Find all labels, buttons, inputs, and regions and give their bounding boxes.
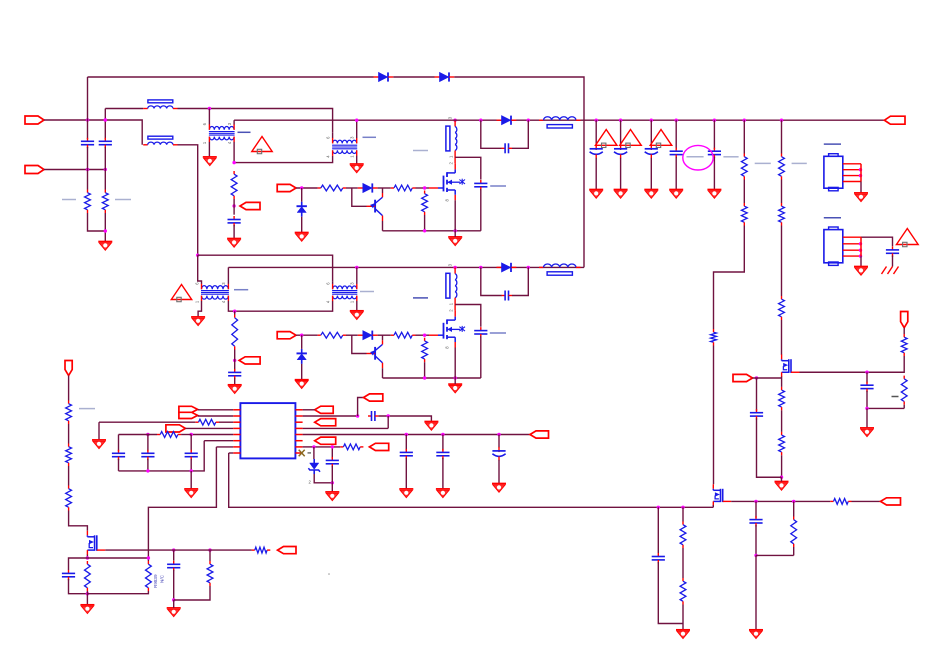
- junction: [233, 310, 236, 313]
- junction: [743, 119, 746, 122]
- wire gnd c16: [190, 471, 192, 489]
- connector pin: [843, 243, 861, 245]
- junction: [865, 407, 868, 410]
- port P2 line input: [25, 166, 44, 174]
- wire cap col b: [147, 435, 149, 452]
- wire top bus seg2: [393, 76, 434, 78]
- resistor R33: [234, 315, 236, 318]
- resistor R26 (N/C): [147, 561, 149, 564]
- ground GND C19: [436, 488, 450, 490]
- wire cap col c: [190, 435, 192, 452]
- resistor R34: [318, 334, 321, 336]
- capacitor C1 X-cap: [87, 138, 89, 142]
- capacitor C24: [657, 553, 659, 557]
- connector pin: [843, 175, 861, 177]
- junction: [104, 118, 107, 121]
- wire drive rail 1: [383, 230, 481, 232]
- junction: [104, 229, 107, 232]
- capacitor C8 (polarized): [650, 145, 652, 150]
- wire C20 down: [498, 460, 500, 484]
- junction: [86, 118, 89, 121]
- capacitor C22: [68, 570, 70, 574]
- wire drv1 a: [296, 187, 318, 189]
- wire T3 TL stub: [201, 281, 203, 284]
- wire C12 down: [757, 418, 782, 477]
- junction: [713, 119, 716, 122]
- wire nc bot: [87, 591, 148, 594]
- wire P7-Q3: [753, 377, 782, 379]
- wire T3-T4 link: [228, 301, 332, 311]
- wire R16 down: [781, 455, 783, 477]
- junction: [780, 119, 783, 122]
- wire T1 pin3 up: [233, 120, 235, 124]
- capacitor C23: [173, 561, 175, 565]
- capacitor C16: [190, 450, 192, 454]
- wire Rcol2 mid: [781, 180, 783, 204]
- ground GND T2: [350, 163, 364, 165]
- wire secondary rail 1: [234, 119, 884, 121]
- resistor R6: [391, 187, 394, 189]
- svg-text:N/C: N/C: [160, 574, 165, 583]
- resistor R7: [424, 191, 426, 194]
- wire c24 down: [658, 562, 683, 624]
- resistor R27: [209, 561, 211, 564]
- diode D7 rect2: [497, 266, 502, 268]
- ground GND J1: [854, 192, 868, 194]
- wire T3 TR up: [227, 267, 229, 284]
- wire T1 pri feed: [208, 109, 210, 125]
- resistor R5: [318, 187, 321, 189]
- port P10: [166, 425, 186, 432]
- capacitor C21: [331, 457, 333, 461]
- junction: [387, 414, 390, 417]
- wire T1 pin1 gnd: [208, 142, 210, 157]
- wire Lp2 top stub: [454, 267, 456, 273]
- port P20: [239, 357, 260, 364]
- value label (greeked): [687, 156, 704, 158]
- ground GND M2: [448, 383, 462, 385]
- wire X-cap bus A: [87, 77, 89, 120]
- wire P6 wire: [903, 328, 905, 334]
- wire c24 top: [657, 507, 659, 553]
- wire snub1 top: [455, 157, 481, 179]
- junction: [208, 548, 211, 551]
- junction: [233, 359, 236, 362]
- port P4 drive1: [277, 184, 296, 191]
- warning symbol W3: [620, 130, 641, 146]
- diode D4 rect1: [497, 119, 502, 121]
- wire row2 feed: [198, 255, 333, 281]
- junction: [497, 433, 500, 436]
- wire snub2 top: [455, 305, 481, 327]
- svg-text:R9839: R9839: [153, 574, 158, 588]
- wire gnd stub q3: [781, 477, 783, 481]
- capacitor C5: [502, 147, 506, 149]
- port P17: [65, 361, 72, 376]
- wire c25 link: [756, 554, 794, 556]
- value label (greeked): [413, 297, 428, 299]
- wire top bus seg1: [88, 76, 374, 78]
- junction: [355, 266, 358, 269]
- wire pin7 r: [303, 446, 316, 448]
- pin junction: [859, 168, 862, 171]
- port P18: [278, 547, 297, 554]
- resistor R1 discharge: [87, 190, 89, 193]
- junction: [650, 119, 653, 122]
- IC pin: [233, 440, 240, 442]
- wire snub1 bot: [480, 189, 482, 231]
- capacitor C26: [234, 369, 236, 373]
- port P11: [315, 406, 334, 413]
- wire chain d: [69, 511, 88, 531]
- wire T4 TR up: [356, 267, 358, 284]
- wire capcol c d: [190, 459, 192, 471]
- wire input L: [44, 120, 142, 145]
- wire R36 bot: [424, 362, 426, 378]
- IC U1 controller: [240, 403, 295, 458]
- capacitor C3: [233, 216, 235, 220]
- tiny dot: [328, 573, 330, 575]
- junction: [232, 161, 235, 164]
- wire C11 earth: [892, 255, 894, 266]
- wire colB top: [104, 109, 106, 140]
- value label (greeked): [490, 332, 506, 334]
- pin junction: [859, 242, 862, 245]
- ground GND pin2: [424, 421, 438, 423]
- wire Rcol1 top: [743, 120, 745, 153]
- wire pin2-pin4: [387, 416, 389, 428]
- inductor T5 primary: [446, 126, 450, 151]
- warning symbol W4: [650, 130, 671, 146]
- resistor R23: [68, 486, 70, 489]
- wire L1 in: [105, 108, 143, 110]
- wire T2 pin3 up: [356, 120, 358, 138]
- wire Rcol1 mid: [743, 180, 745, 204]
- connector pin link: [860, 164, 862, 182]
- pin junction: [859, 174, 862, 177]
- wire q5 gate line: [731, 500, 830, 502]
- wire drv2 c: [378, 334, 391, 336]
- resistor R24: [252, 549, 255, 551]
- port P3: [240, 202, 260, 209]
- junction: [479, 266, 482, 269]
- wire r29-r30: [682, 548, 684, 578]
- wire pin5 left: [119, 434, 158, 436]
- capacitor C10: [713, 148, 715, 152]
- capacitor C7 (polarized): [620, 145, 622, 150]
- ground GND C20: [492, 483, 506, 485]
- connector pin: [843, 169, 861, 171]
- wire pin6 wire: [204, 440, 233, 442]
- wire R7 bot: [424, 215, 426, 231]
- resistor R9: [743, 203, 745, 206]
- wire C18 top: [405, 435, 407, 451]
- earth ground EGND: [882, 267, 887, 275]
- MOSFET Q5: [712, 484, 714, 489]
- wire pin2 r2: [378, 416, 431, 422]
- wire R14 down: [800, 356, 905, 372]
- wire outcapf0 bot: [675, 157, 677, 190]
- port P14: [530, 431, 549, 438]
- IC pin: [233, 446, 240, 448]
- wire T2 bottom link: [234, 156, 333, 163]
- IC pin: [233, 421, 240, 423]
- junction: [423, 334, 426, 337]
- wire Q1 collector stub: [382, 216, 384, 221]
- wire drv2 a: [296, 334, 318, 336]
- ground GND C13: [860, 427, 874, 429]
- ground GND C3: [227, 238, 241, 240]
- wire pin7 down: [148, 447, 216, 561]
- port P9: [179, 412, 198, 418]
- wire drv1 d: [416, 187, 430, 189]
- wire Rcol2 low: [781, 320, 783, 355]
- wire top bus seg3: [454, 77, 584, 267]
- wire pin3 gnd: [98, 422, 100, 440]
- IC pin: [233, 427, 240, 429]
- wire gnd stub M2: [454, 378, 456, 384]
- wire colA bot: [87, 170, 89, 190]
- junction: [423, 376, 426, 379]
- IC pin: [233, 434, 240, 436]
- wire drv2 b: [346, 334, 358, 336]
- wire T3 TL: [198, 255, 202, 281]
- wire q5 net gnd: [755, 555, 757, 629]
- pin junction: [859, 249, 862, 252]
- junction: [196, 254, 199, 257]
- wire C3 gnd: [233, 225, 235, 239]
- warning symbol W6: [171, 285, 191, 300]
- wire T2 pri feed: [332, 133, 334, 138]
- wire q4 src: [86, 555, 88, 559]
- resistor R20: [340, 446, 343, 448]
- capacitor C6 (polarized): [595, 145, 597, 150]
- port P21 drive2: [277, 332, 296, 339]
- wire C20 top: [498, 435, 500, 448]
- ground GND T4: [350, 310, 364, 312]
- wire T4 BR gnd: [356, 301, 358, 311]
- wire r27 top: [209, 550, 211, 561]
- wire drv2 d: [416, 334, 430, 336]
- capacitor C9: [675, 148, 677, 152]
- wire outcap3 top: [650, 120, 652, 145]
- wire nc link: [87, 557, 148, 559]
- capacitor C28: [502, 295, 506, 297]
- warning symbol W5: [896, 229, 918, 245]
- junction: [300, 334, 303, 337]
- junction: [441, 433, 444, 436]
- pin junction: [859, 254, 862, 257]
- port P19: [881, 498, 901, 505]
- wire r24 in: [105, 549, 251, 551]
- capacitor C25: [755, 516, 757, 520]
- connector pin: [843, 236, 861, 238]
- wire P7 cap: [756, 378, 758, 411]
- ground GND C18: [399, 488, 413, 490]
- junction: [190, 433, 193, 436]
- inductor L3 output: [539, 119, 544, 121]
- wire outcap2 top: [620, 120, 622, 145]
- junction: [86, 168, 89, 171]
- port P16: [369, 443, 388, 450]
- junction: [423, 186, 426, 189]
- wire C19 top: [442, 435, 444, 451]
- wire capcol b d: [147, 459, 149, 471]
- ground GND R30: [676, 629, 690, 631]
- wire r29 top: [682, 507, 684, 521]
- value label (greeked): [79, 408, 95, 410]
- wire drive rail 2: [383, 377, 481, 379]
- wire pin4 r: [303, 427, 389, 429]
- value label (greeked): [490, 185, 506, 187]
- wire colB mid: [104, 147, 106, 170]
- junction: [755, 376, 758, 379]
- junction: [675, 119, 678, 122]
- wire M1 src: [454, 200, 456, 231]
- value label (greeked): [792, 162, 807, 164]
- capacitor C13: [866, 382, 868, 386]
- junction: [865, 371, 868, 374]
- wire cap loop l2: [69, 579, 88, 594]
- wire pin8 left: [229, 452, 234, 454]
- junction: [86, 556, 89, 559]
- port P1 line input: [25, 116, 44, 124]
- wire Rcol2 mid2: [781, 226, 783, 297]
- wire r27 down: [174, 586, 210, 600]
- junction: [146, 469, 149, 472]
- wire input N: [44, 169, 105, 171]
- wire Q3 src down: [781, 377, 783, 387]
- value label (greeked): [413, 150, 428, 152]
- resistor R29: [682, 522, 684, 525]
- wire X-cap col A: [87, 120, 89, 139]
- wire T4 TL stub: [332, 281, 334, 284]
- wire Lp1 bottom stub: [454, 151, 456, 164]
- wire c25 down: [755, 525, 757, 555]
- junction: [454, 376, 457, 379]
- junction: [104, 118, 107, 121]
- wire T3 BL gnd: [198, 301, 201, 317]
- wire drv1 b: [346, 187, 358, 189]
- tiny mark: [308, 452, 312, 454]
- junction: [754, 554, 757, 557]
- transformer T2 gate-drive: [333, 140, 357, 143]
- port P12: [364, 394, 383, 401]
- connector pin link: [860, 237, 862, 256]
- connector pin: [843, 255, 861, 257]
- junction: [681, 506, 684, 509]
- wire Q2 collector stub: [382, 363, 384, 368]
- wire outcap1 top: [595, 120, 597, 145]
- capacitor C20 (polarized): [498, 447, 500, 452]
- junction: [453, 266, 456, 269]
- wire pin3 far: [99, 421, 195, 423]
- wire r32 down: [793, 547, 795, 555]
- ground GND input: [98, 241, 112, 243]
- junction: [423, 229, 426, 232]
- resistor R13: [781, 296, 783, 299]
- resistor R12: [781, 203, 783, 206]
- wire Rcol2 top: [781, 120, 783, 153]
- wire r25 gnd: [86, 591, 88, 605]
- capacitor C15: [147, 450, 149, 454]
- wire Rcol1 down: [714, 226, 745, 330]
- wire R15-R16: [781, 410, 783, 432]
- junction: [312, 445, 315, 448]
- diode D1 bus: [374, 76, 379, 78]
- value label (greeked): [723, 156, 738, 158]
- junction: [172, 598, 175, 601]
- inductor L1 filter choke: [143, 108, 148, 110]
- warning symbol W2: [595, 130, 616, 146]
- wire pin4 wire: [185, 427, 233, 429]
- wire outcapf1 bot: [713, 157, 715, 190]
- wire C18 down: [405, 458, 407, 489]
- connector pin: [843, 163, 861, 165]
- wire portB link: [358, 398, 364, 417]
- value label (greeked): [360, 291, 374, 293]
- wire pin3 left: [219, 421, 233, 423]
- wire C13 down: [867, 391, 904, 409]
- resistor R15: [781, 387, 783, 390]
- junction: [208, 107, 211, 110]
- ground GND J2: [854, 266, 868, 268]
- wire r33 top: [234, 311, 236, 314]
- wire L2 out: [178, 145, 198, 255]
- MOSFET Q4: [86, 531, 88, 536]
- wire colB gnd: [104, 213, 106, 242]
- capacitor C12: [756, 409, 758, 413]
- ground GND C6: [589, 189, 603, 191]
- junction: [754, 500, 757, 503]
- wire Q5 source to bus: [712, 505, 714, 507]
- port P8: [179, 406, 198, 412]
- value label (greeked): [238, 131, 251, 133]
- wire pin5 wire: [191, 434, 233, 436]
- resistor R21: [68, 401, 70, 404]
- port P13: [315, 419, 336, 426]
- ground GND C7: [614, 189, 628, 191]
- junction: [619, 119, 622, 122]
- wire Q2 emitter stub: [382, 340, 384, 344]
- ground GND Z1: [295, 232, 309, 234]
- junction: [479, 119, 482, 122]
- ground GND C23: [167, 607, 181, 609]
- ground GND C26: [228, 384, 242, 386]
- wire pin8 down / bottom bus: [229, 453, 714, 507]
- inductor T5 primary b: [446, 273, 450, 298]
- ground GND Q4: [80, 604, 94, 606]
- junction: [355, 119, 358, 122]
- resistor R25: [86, 561, 88, 564]
- resistor R2 discharge: [104, 190, 106, 193]
- wire chain a: [68, 376, 70, 401]
- resistor R18: [195, 421, 198, 423]
- wire snubD1 b: [512, 120, 528, 148]
- wire outcap1 bot: [595, 158, 597, 190]
- wire pin5 rail: [303, 434, 530, 436]
- wire C21 gnd: [331, 483, 333, 492]
- junction: [454, 229, 457, 232]
- junction: [453, 119, 456, 122]
- MOSFET M1: [429, 187, 438, 189]
- inductor L4 output: [539, 266, 544, 268]
- wire led down: [314, 474, 332, 483]
- ground GND Z2: [295, 379, 309, 381]
- junction: [300, 186, 303, 189]
- wire c23 down: [173, 570, 175, 600]
- connector pin: [843, 249, 861, 251]
